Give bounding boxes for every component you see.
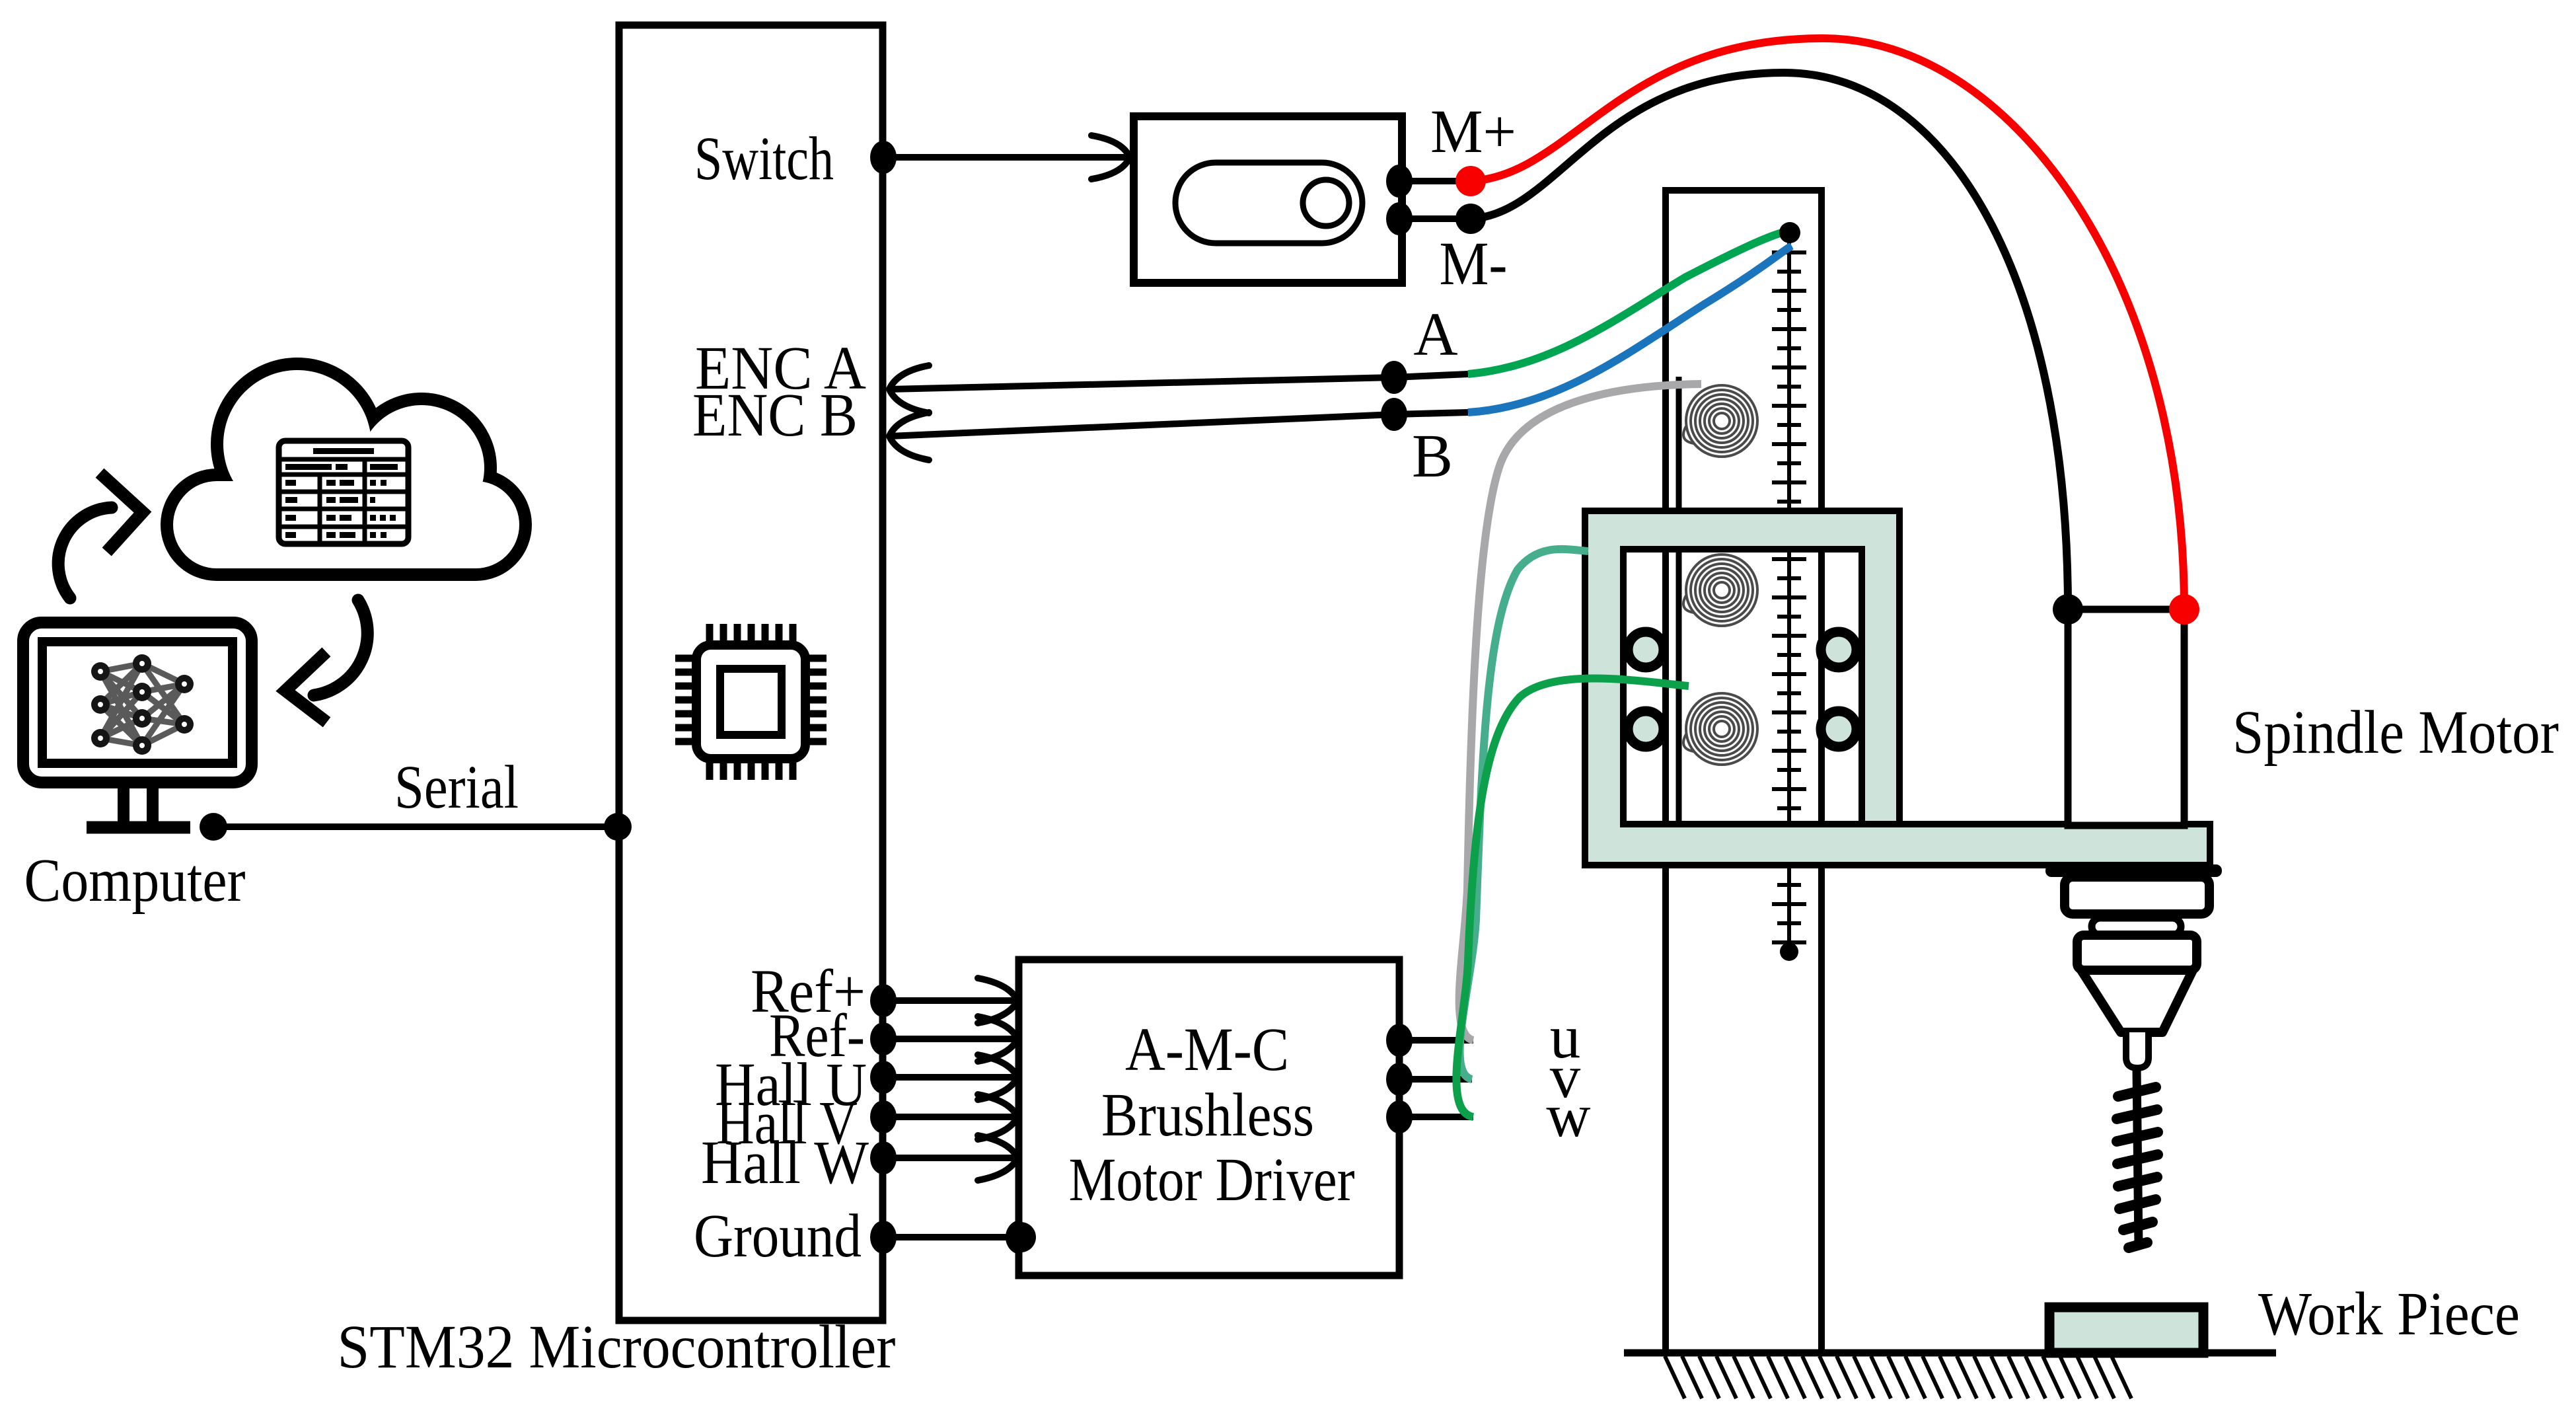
- svg-text:Work Piece: Work Piece: [2258, 1280, 2520, 1348]
- svg-text:A-M-C: A-M-C: [1125, 1016, 1289, 1084]
- svg-text:ENC B: ENC B: [692, 381, 858, 449]
- svg-text:Switch: Switch: [694, 125, 834, 193]
- svg-text:Ground: Ground: [694, 1202, 862, 1270]
- svg-text:B: B: [1412, 422, 1453, 490]
- svg-text:Computer: Computer: [24, 847, 246, 915]
- svg-text:Motor Driver: Motor Driver: [1069, 1146, 1355, 1214]
- svg-text:M+: M+: [1430, 98, 1516, 166]
- svg-text:Brushless: Brushless: [1101, 1081, 1314, 1149]
- svg-text:Spindle Motor: Spindle Motor: [2232, 699, 2559, 767]
- svg-text:w: w: [1546, 1082, 1590, 1150]
- svg-text:A: A: [1413, 301, 1457, 369]
- svg-text:Serial: Serial: [394, 753, 519, 821]
- svg-text:STM32 Microcontroller: STM32 Microcontroller: [338, 1313, 896, 1381]
- svg-text:Hall W: Hall W: [701, 1129, 869, 1197]
- svg-text:M-: M-: [1440, 230, 1508, 298]
